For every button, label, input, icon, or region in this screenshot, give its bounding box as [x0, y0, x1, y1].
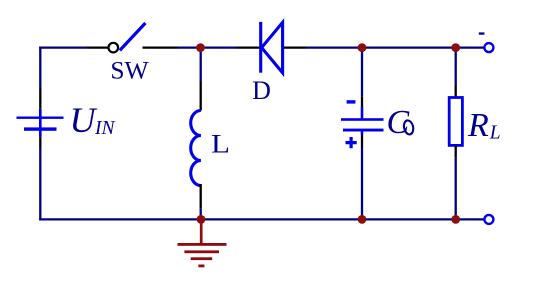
- wire: left rail lower (navy): [39, 148, 41, 221]
- wire: resistor top lead (black): [455, 86, 457, 98]
- wire: diode left lead (black): [237, 46, 260, 48]
- wire: capacitor bottom lead (black): [361, 135, 363, 148]
- battery UIN center lead (blue): [39, 109, 42, 138]
- capacitor CO bottom plate: [343, 129, 384, 132]
- wire: diode right lead (black): [284, 46, 307, 48]
- wire: battery bottom lead (black): [39, 138, 41, 148]
- ground bar 1: [178, 243, 227, 246]
- label CO subscript O: [403, 120, 415, 136]
- terminal: output top circle: [484, 43, 493, 52]
- wire: left rail upper (navy): [39, 47, 41, 89]
- wire: resistor column lower (navy): [455, 157, 457, 219]
- capacitor CO top stub (blue): [361, 107, 364, 120]
- node: capacitor bottom junction: [358, 215, 367, 224]
- battery UIN negative plate: [24, 127, 57, 130]
- node: capacitor top junction: [358, 43, 367, 52]
- wire: inductor column upper (navy): [200, 48, 202, 82]
- diode D triangle: [262, 22, 283, 72]
- svg-text:C: C: [387, 104, 410, 141]
- node: inductor/ground bottom junction: [197, 215, 206, 224]
- wire: inductor bottom lead (black): [200, 184, 202, 209]
- ground stem: [200, 219, 203, 244]
- wire: capacitor top lead (black): [361, 96, 363, 107]
- wire: inductor column lower (navy): [200, 209, 202, 220]
- wire: switch right lead (black): [143, 46, 178, 48]
- switch SW lever (blue): [120, 23, 146, 50]
- wire: top rail diode-to-terminal (navy): [307, 46, 485, 48]
- wire: resistor column upper (navy): [455, 48, 457, 86]
- capacitor CO top plate: [341, 118, 384, 121]
- wire: switch left lead (black): [87, 46, 108, 48]
- svg-text:RL: RL: [467, 107, 501, 144]
- node: resistor top junction: [451, 43, 460, 52]
- wire: inductor top lead (black): [200, 82, 202, 111]
- diode D cathode bar: [259, 22, 262, 73]
- capacitor CO bottom stub (blue): [361, 130, 364, 135]
- wire: capacitor column lower (navy): [361, 148, 363, 220]
- label plus of capacitor: [346, 137, 357, 148]
- svg-text:SW: SW: [110, 55, 149, 84]
- wire: battery top lead (black): [39, 89, 41, 109]
- wire: capacitor column upper (navy): [361, 48, 363, 97]
- node: switch/inductor/diode junction: [196, 43, 205, 52]
- wire: bottom rail (navy): [39, 218, 484, 220]
- terminal: output bottom circle: [484, 215, 493, 224]
- svg-text:L: L: [211, 129, 230, 159]
- switch SW pivot circle: [109, 43, 119, 53]
- label minus at output terminal: [479, 32, 485, 34]
- svg-text:UIN: UIN: [70, 100, 116, 140]
- resistor RL body: [449, 98, 462, 146]
- inductor L coil arcs: [191, 111, 201, 186]
- ground bar 4: [198, 265, 204, 268]
- wire: top rail left segment (navy): [39, 46, 87, 48]
- node: resistor bottom junction: [451, 215, 460, 224]
- battery UIN positive plate: [17, 117, 64, 119]
- ground bar 2: [184, 250, 219, 253]
- wire: resistor bottom lead (black): [455, 145, 457, 157]
- label minus of capacitor: [347, 100, 356, 103]
- wire: top rail switch-to-diode (navy): [178, 46, 237, 48]
- ground bar 3: [191, 257, 213, 260]
- svg-text:D: D: [252, 76, 271, 105]
